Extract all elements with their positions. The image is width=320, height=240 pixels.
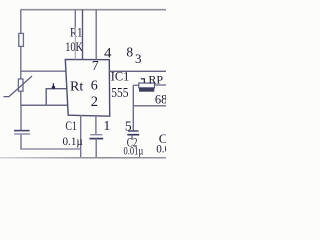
svg-text:6: 6	[91, 78, 98, 93]
wire pin2	[21, 104, 68, 106]
wire pin6 corner down	[45, 88, 47, 105]
wire pin1 vertical	[80, 115, 82, 158]
svg-text:4: 4	[104, 46, 112, 62]
capacitor C1 plates	[14, 130, 30, 132]
svg-text:Rt: Rt	[70, 80, 83, 95]
svg-text:2: 2	[91, 94, 98, 110]
wire pin5 vertical	[95, 115, 97, 134]
svg-text:555: 555	[111, 86, 128, 101]
resistor R1 body	[19, 33, 24, 46]
wire lower right horizontal	[133, 105, 166, 107]
wire VCC top rail	[20, 9, 166, 11]
wire ground rail B	[0, 157, 166, 159]
svg-text:3: 3	[135, 51, 142, 66]
op IC1 555 box U1	[65, 59, 109, 116]
potentiometer RP wiper	[141, 78, 145, 80]
wire pin8b vertical	[95, 10, 97, 60]
wire ground link A	[20, 148, 81, 150]
wire RP left lead	[133, 84, 139, 86]
wire pin4 vertical	[74, 10, 76, 60]
wire pin7	[21, 70, 66, 72]
svg-text:10K: 10K	[65, 39, 83, 54]
wire pin3 output	[109, 70, 166, 72]
svg-text:7: 7	[92, 58, 99, 73]
svg-text:RP: RP	[148, 72, 163, 86]
capacitor pin5 plates	[90, 134, 102, 136]
svg-text:1: 1	[104, 118, 111, 133]
junction dot node TH	[52, 86, 55, 89]
wire left branch vertical	[20, 10, 22, 150]
thermistor Rt diagonal	[4, 76, 33, 97]
wire pin6	[46, 88, 67, 90]
svg-text:5: 5	[125, 118, 132, 133]
svg-text:0.1µ: 0.1µ	[63, 136, 84, 148]
thermistor Rt body	[18, 79, 23, 91]
wire RP right lead	[155, 84, 167, 86]
svg-text:C1: C1	[65, 118, 77, 133]
svg-text:0.0: 0.0	[156, 143, 166, 155]
wire RP left vertical	[132, 85, 134, 131]
svg-text:R1: R1	[70, 25, 82, 40]
wire pin8a vertical	[82, 10, 84, 60]
svg-text:68: 68	[155, 92, 166, 106]
svg-text:0.01µ: 0.01µ	[124, 145, 144, 157]
wire cap to ground	[95, 139, 97, 158]
svg-text:8: 8	[126, 45, 133, 60]
capacitor C2 plates	[128, 130, 139, 132]
potentiometer RP body	[139, 83, 155, 88]
